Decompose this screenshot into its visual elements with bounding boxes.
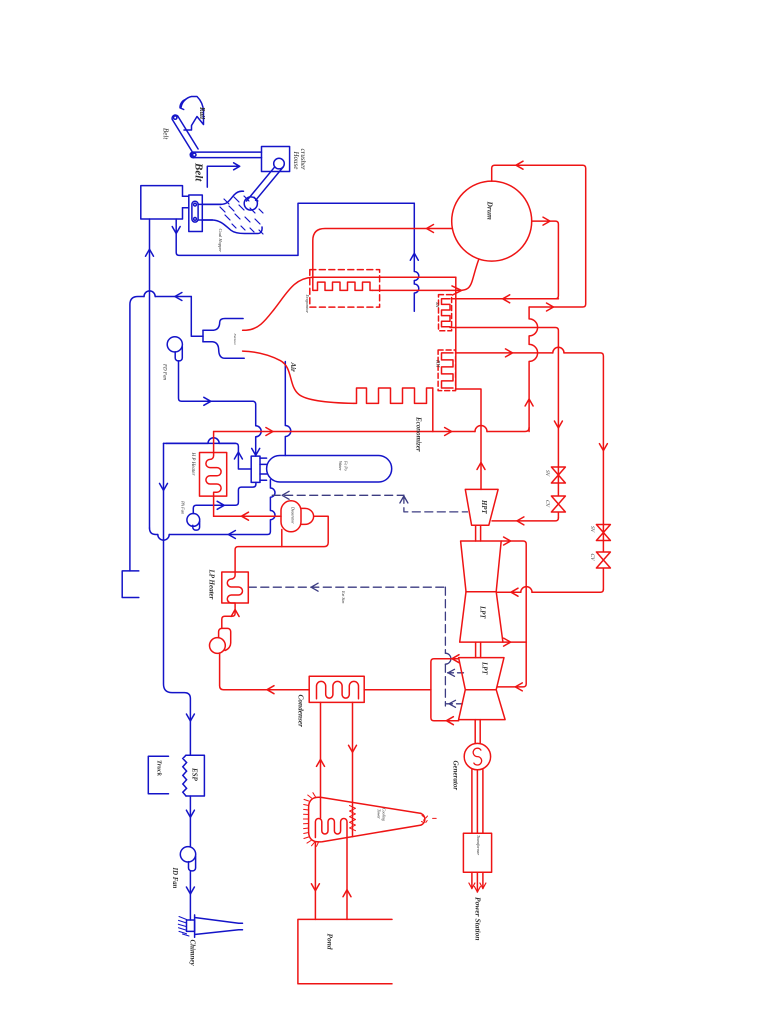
coal hopper outline [198, 191, 243, 204]
chimney [195, 915, 243, 937]
turbine LPT1 [460, 541, 503, 642]
wire condensate to drain cooler [220, 653, 310, 690]
shaft HPT-LPT1 [476, 525, 481, 541]
svg-text:LP Heater: LP Heater [208, 569, 216, 600]
hops over risers [553, 347, 564, 353]
shaft LPT1-LPT2 [476, 642, 481, 658]
drum [452, 181, 532, 261]
svg-text:HPT: HPT [480, 499, 487, 514]
wire saturated steam to SH [453, 298, 559, 300]
wire HP heater to feed line [213, 432, 215, 517]
wire gas APH to flue duct [167, 443, 252, 469]
tower fill coil [315, 819, 347, 838]
svg-text:Fe Po: Fe Po [344, 460, 349, 471]
hopper feed pulley [244, 197, 257, 210]
wire FD fan suction duct [130, 297, 191, 571]
wire cooling water hot leg [352, 702, 354, 836]
svg-text:Evaporator: Evaporator [305, 294, 310, 314]
svg-text:Tower: Tower [377, 809, 382, 819]
FD fan scroll [167, 337, 182, 352]
tower shell hatch marks [303, 793, 318, 847]
LPT2 waist divider [465, 689, 496, 691]
wire feedwater line [214, 428, 529, 432]
pond [298, 919, 392, 983]
svg-text:H P Heater: H P Heater [190, 452, 195, 476]
SH coil dashed box [439, 295, 452, 331]
wire main steam SH outlet [450, 327, 558, 467]
svg-text:PA Fan: PA Fan [181, 500, 186, 515]
svg-text:Coal Hopper: Coal Hopper [218, 229, 223, 253]
wire drum downcomer [532, 221, 559, 299]
wire LPT1 exhaust top [498, 541, 527, 687]
safety valve SV2 [596, 525, 610, 541]
wire drum to waterwall [313, 229, 453, 291]
LP heater coil [227, 572, 242, 603]
furnace hopper upper lip [203, 319, 243, 331]
wire BFP to HP heater [214, 515, 281, 517]
control valve CV1 [551, 483, 565, 518]
svg-text:Belt: Belt [162, 128, 170, 140]
wire PA fan duct [193, 482, 256, 513]
turbine LPT2 [459, 658, 506, 720]
svg-text:Economizer: Economizer [415, 416, 423, 452]
svg-text:CV: CV [544, 500, 550, 508]
wire economizer inlet [432, 388, 434, 432]
ESP box with discharge zigzag [186, 755, 204, 796]
wire exhaust steam to condenser [364, 689, 431, 691]
generator [464, 743, 490, 769]
RH coil dashed box [438, 350, 456, 391]
svg-text:Belt: Belt [193, 162, 205, 182]
HP heater box [200, 453, 227, 497]
shaft LPT2-generator [475, 720, 480, 744]
tower spray zigzag on hot pipe [350, 806, 356, 831]
svg-text:LPT: LPT [479, 605, 486, 619]
belt conveyor 2 (horizontal) [194, 152, 262, 158]
wire hot reheat to LPT [456, 353, 604, 525]
LP heater box [222, 572, 249, 603]
wire main steam to HPT [492, 518, 558, 521]
extraction steam to LP heater (dashed) [248, 586, 445, 588]
svg-text:SV: SV [544, 470, 550, 477]
svg-text:FD Fan: FD Fan [162, 363, 167, 380]
wire ESP to ID fan [189, 796, 191, 847]
coal feeder plate [189, 195, 203, 232]
turbine HPT [465, 489, 498, 525]
platen coil [314, 282, 373, 290]
RH coil [442, 353, 454, 388]
belt conveyor 1 (inclined) [172, 116, 198, 152]
wind box vessel [267, 456, 392, 483]
svg-text:Transformer: Transformer [476, 835, 481, 855]
wire drain cooler to LP heater [222, 603, 235, 628]
wire FD fan to air preheater [179, 361, 262, 456]
transformer box [463, 833, 491, 872]
svg-text:LPT: LPT [481, 661, 488, 675]
furnace wall lower [243, 351, 354, 403]
svg-text:Generator: Generator [452, 761, 460, 791]
hop over HP heater feed line [167, 438, 236, 444]
ID fan scroll [180, 847, 195, 862]
condenser coil [317, 681, 359, 698]
wire hot air to mill with hop [150, 528, 158, 535]
svg-text:RH: RH [435, 359, 441, 368]
svg-text:Rail: Rail [198, 106, 206, 119]
svg-text:Drum: Drum [486, 201, 495, 221]
belt conveyor 3 (to hopper) [247, 167, 284, 201]
svg-text:Truck: Truck [156, 760, 163, 777]
wire ID fan to chimney [189, 871, 191, 920]
safety valve SV1 [551, 467, 565, 483]
svg-text:ESP: ESP [191, 767, 199, 782]
svg-text:Air: Air [289, 362, 297, 373]
svg-text:CV: CV [589, 554, 595, 562]
platen superheater dashed box [310, 270, 380, 308]
wire furnace gas riser [414, 203, 419, 311]
extraction stubs from LPT (dashed) [445, 672, 463, 674]
HP heater coil [206, 453, 221, 497]
wire mill air supply [149, 219, 151, 528]
svg-text:Pond: Pond [326, 934, 335, 950]
truck bracket [148, 756, 168, 794]
wire BFP drain leg [281, 530, 283, 547]
wire hot air down from windbox [169, 480, 275, 535]
svg-text:SV: SV [589, 526, 595, 533]
mill box [141, 186, 183, 219]
svg-text:Water: Water [338, 461, 343, 471]
transmission lines with arrows [472, 872, 483, 892]
wire waterwall riser to drum bottom [373, 260, 479, 291]
wire duct to furnace burner [191, 297, 203, 337]
tower spray tip [421, 813, 425, 825]
SH coil [442, 299, 451, 327]
air preheater [251, 456, 260, 482]
furnace hopper lower lip [203, 342, 244, 359]
furnace wall upper [243, 277, 313, 330]
wire feed riser to drum top [492, 165, 586, 307]
control valve CV2 [596, 541, 610, 590]
hop over feed riser [554, 421, 562, 428]
air intake bracket [122, 571, 139, 598]
hop under flue downcomer [158, 535, 169, 541]
wire platen inlet header [313, 276, 456, 278]
hop over HPT exhaust [475, 426, 487, 432]
crusher pulley [274, 158, 285, 169]
wire cooling water cold leg [320, 702, 322, 818]
LPT2 exhaust hood [431, 659, 459, 721]
wire flue gas downcomer to ESP [164, 443, 191, 755]
rail tippler hook [181, 97, 204, 131]
extraction steam to deaerator (dashed) [272, 494, 404, 496]
burner throat [202, 330, 204, 342]
drain cooler [210, 638, 226, 654]
wire economizer outlet riser [529, 307, 538, 432]
wire LPT1 exhaust bottom [503, 641, 526, 643]
belt direction arrow (L-shape) [207, 166, 239, 187]
wire LP heater to deaerator [235, 516, 328, 572]
economizer coil [354, 388, 433, 403]
hop over exhaust line [445, 653, 451, 664]
APH cross ducts [260, 458, 267, 480]
wire mill outlet to furnace riser [176, 203, 414, 255]
svg-text:Power Station: Power Station [474, 897, 483, 941]
wire tower to pond legs [315, 838, 347, 920]
svg-text:Deaerator: Deaerator [291, 506, 296, 524]
PA fan scroll [187, 514, 200, 527]
feeder throat lines [202, 204, 221, 220]
hop over mill air line [144, 291, 155, 297]
coal hatch marks [220, 196, 263, 234]
wire platen inlet vertical header [455, 277, 457, 389]
crusher house box [262, 147, 290, 172]
svg-text:ID Fan: ID Fan [171, 867, 178, 889]
wire secondary air duct to windbox [285, 362, 291, 456]
wire cold reheat [456, 389, 481, 489]
wire hot reheat into LPT1 [497, 589, 603, 592]
svg-text:House: House [292, 151, 300, 170]
cooling tower shell [309, 797, 421, 842]
deaerator / BFP [281, 501, 301, 532]
svg-text:Condenser: Condenser [297, 695, 306, 728]
svg-text:Chimney: Chimney [189, 940, 197, 967]
svg-text:Furnace: Furnace [233, 333, 237, 346]
svg-text:Ext Stm: Ext Stm [341, 590, 346, 603]
generator bus lines [472, 769, 483, 833]
svg-text:SH: SH [435, 302, 440, 308]
LPT1 waist divider [466, 591, 496, 593]
condenser box [309, 676, 364, 702]
